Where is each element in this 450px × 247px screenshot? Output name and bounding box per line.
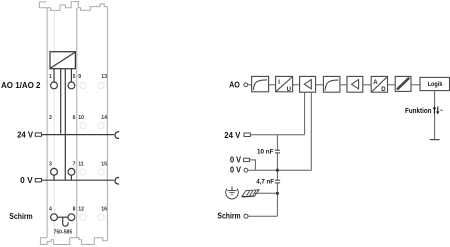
DAC box U1 — [50, 52, 75, 69]
I/U converter block 2 — [276, 76, 293, 91]
junction ground — [276, 192, 279, 195]
Funktion end bar — [430, 139, 440, 141]
wire b2-b3 — [293, 84, 300, 86]
small mark after arrows — [441, 109, 443, 111]
svg-text:0 V: 0 V — [230, 166, 242, 175]
amplifier block 5 — [347, 76, 363, 92]
module right edge — [106, 7, 108, 241]
svg-text:4,7 nF: 4,7 nF — [256, 178, 274, 185]
wire supply - to 0V line — [64, 69, 66, 181]
svg-text:AO: AO — [229, 80, 240, 89]
0V square symbol — [244, 158, 250, 161]
0V elbow wire — [249, 160, 255, 170]
svg-text:750-585: 750-585 — [54, 230, 73, 236]
wire AO to block 1 — [248, 84, 252, 86]
wire b4-b5 — [340, 84, 347, 86]
wire b6-b7 — [388, 84, 396, 86]
chassis ground symbol — [242, 190, 259, 197]
svg-text:4: 4 — [49, 207, 52, 213]
wire stem to terminal 1 — [53, 69, 55, 83]
24V rail wire — [42, 134, 114, 136]
svg-text:0 V: 0 V — [230, 155, 242, 164]
svg-text:D: D — [381, 87, 386, 93]
module top tab left — [39, 2, 46, 8]
svg-text:AO 1/AO 2: AO 1/AO 2 — [1, 81, 41, 90]
0V power jumper square — [35, 179, 41, 182]
wire chassis to net — [254, 192, 277, 194]
module bottom contour — [40, 238, 107, 245]
24V jumper socket right — [115, 132, 119, 139]
0V jumper socket right — [115, 177, 119, 184]
wire b5-b6 — [363, 84, 371, 86]
terminal 5 circle — [68, 82, 75, 89]
module top contour — [47, 2, 108, 11]
svg-text:8: 8 — [73, 207, 76, 213]
svg-text:15: 15 — [101, 161, 107, 167]
internal separator — [76, 8, 78, 238]
main vertical net — [276, 135, 278, 151]
wire block 3 down to 0V — [277, 92, 311, 170]
Schirm wire — [248, 215, 277, 217]
svg-text:9: 9 — [78, 74, 81, 80]
wire b1-b2 — [269, 84, 276, 86]
terminal 7 circle with stem — [68, 168, 75, 175]
svg-text:6: 6 — [73, 115, 76, 121]
faint unconnected terminal circles cols 3+4 — [80, 82, 104, 220]
wire up to block 3 — [304, 92, 306, 135]
AO terminal circle — [244, 83, 248, 87]
Schirm terminal circle — [244, 214, 248, 218]
wire b7-logik — [411, 84, 420, 86]
svg-text:1: 1 — [49, 74, 52, 80]
svg-text:Schirm: Schirm — [217, 211, 240, 220]
svg-text:14: 14 — [101, 115, 107, 121]
0V wire — [248, 169, 278, 171]
svg-text:12: 12 — [78, 207, 84, 213]
svg-text:11: 11 — [78, 161, 84, 167]
shield jumper wire between 4 and 8 — [57, 216, 68, 218]
wire supply + to 24V line — [60, 69, 62, 134]
svg-text:2: 2 — [49, 115, 52, 121]
amplifier block 3 — [300, 76, 316, 92]
module left edge — [46, 8, 48, 238]
svg-text:7: 7 — [73, 161, 76, 167]
filter block 4 — [323, 76, 340, 92]
data exchange arrows — [433, 106, 440, 114]
terminal 4 circle — [51, 214, 58, 221]
svg-text:Schirm: Schirm — [9, 212, 32, 221]
svg-text:Logik: Logik — [428, 81, 443, 88]
svg-text:Funktion: Funktion — [405, 108, 432, 115]
terminal numbers — [49, 74, 107, 213]
svg-text:24 V: 24 V — [17, 131, 34, 140]
24V wire — [250, 134, 304, 136]
svg-text:0 V: 0 V — [20, 176, 33, 185]
svg-text:13: 13 — [101, 74, 107, 80]
svg-text:24 V: 24 V — [224, 131, 241, 140]
24V power jumper square — [35, 133, 41, 136]
svg-text:3: 3 — [49, 161, 52, 167]
noiseless earth symbol — [226, 186, 239, 199]
shield hook J — [63, 217, 68, 226]
terminal 8 circle — [68, 214, 75, 221]
wire stem to terminal 5 — [70, 69, 72, 83]
svg-text:5: 5 — [73, 74, 76, 80]
wire b3-b4 — [316, 84, 324, 86]
faint contact column line — [53, 10, 55, 237]
terminal 3 circle with stem — [51, 168, 75, 180]
junction 0V — [276, 169, 279, 172]
svg-text:U: U — [287, 87, 291, 93]
capacitor 10 nF — [275, 150, 280, 153]
svg-text:10: 10 — [78, 115, 84, 121]
filter block 1 — [252, 76, 269, 91]
wires from DAC box — [54, 69, 71, 181]
capacitor 4,7 nF — [275, 180, 280, 183]
svg-text:16: 16 — [101, 207, 107, 213]
svg-text:10 nF: 10 nF — [257, 148, 274, 155]
wire Logik down (Funktion) — [434, 91, 436, 140]
A/D converter block 6 — [371, 76, 387, 92]
isolation block 7 — [395, 76, 411, 91]
Logik box — [420, 77, 450, 90]
24V square symbol — [244, 133, 250, 137]
svg-text:A: A — [373, 80, 378, 86]
terminal 1 circle — [51, 82, 58, 89]
0V rail wire — [42, 179, 114, 181]
0V terminal circle — [244, 168, 248, 172]
